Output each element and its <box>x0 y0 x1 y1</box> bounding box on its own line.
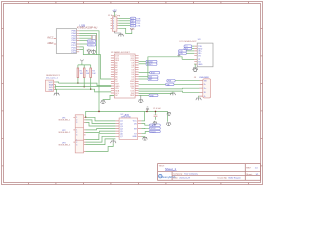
svg-text:J2 NANO-SOCKET: J2 NANO-SOCKET <box>111 51 131 54</box>
wire bus SCL row <box>55 85 111 87</box>
svg-text:DATA: DATA <box>150 124 156 127</box>
svg-text:MODE-SEL-1: MODE-SEL-1 <box>59 120 71 122</box>
U2 right pin names <box>132 121 137 138</box>
svg-text:5: 5 <box>113 28 114 30</box>
svg-text:UD-: UD- <box>179 53 183 55</box>
wire U3 pin3 <box>186 50 194 52</box>
svg-text:REV:: REV: <box>246 168 251 170</box>
wire U1 XTAL1 <box>79 35 91 37</box>
svg-text:V3: V3 <box>198 56 200 58</box>
svg-text:TXD0: TXD0 <box>88 45 94 47</box>
wire J2 right to SCK label <box>139 72 150 74</box>
wire U3 XI pin from long run <box>182 58 194 60</box>
IC U3 (right, serial converter) <box>180 39 214 67</box>
pin header J2 (big 36-pin socket) <box>111 51 135 98</box>
svg-text:SCK: SCK <box>151 73 156 75</box>
wire U1 XTAL2 <box>79 37 91 39</box>
JP pin numbers <box>76 117 77 146</box>
J2 left pin stubs <box>111 56 114 96</box>
wire J2 top right long run <box>148 57 182 78</box>
title block Sheet cell <box>246 173 259 176</box>
connector J3 (USB) <box>194 77 211 98</box>
net label TXD <box>130 22 140 25</box>
wire U3 pin2 <box>192 48 195 50</box>
wire J1 pin4 to label <box>118 25 130 27</box>
wire J4 gnd pin <box>55 90 56 93</box>
ground below J2 left <box>101 101 106 104</box>
connector J1 (top programming header) <box>108 10 121 31</box>
wire to mid ground <box>139 92 173 94</box>
wire J1 pin1 to label <box>118 17 130 19</box>
J2 right pin names <box>130 56 135 98</box>
ground at end of bus <box>166 123 171 126</box>
svg-text:Sheet_1: Sheet_1 <box>165 167 177 171</box>
wire J2 right to SS label <box>139 76 148 78</box>
net label UD- (U3) <box>179 52 187 55</box>
ground below J1 <box>115 31 124 36</box>
net label PWR <box>167 79 175 82</box>
svg-text:CTS: CTS <box>136 26 141 28</box>
wire U1 to net label TXD <box>79 43 87 45</box>
title block <box>158 164 261 181</box>
frame outer border <box>2 2 263 185</box>
wire JP3 pin1 to U2 <box>86 134 116 140</box>
svg-text:VIN: VIN <box>150 95 154 97</box>
wire J2 right pin3 to label <box>139 61 146 63</box>
svg-text:MODE-SEL-2: MODE-SEL-2 <box>59 132 71 134</box>
wire J2 last row to label <box>139 94 149 96</box>
net label UD+ (U3) <box>179 50 187 53</box>
title block REV <box>246 168 258 170</box>
wire JP1 pin1 to U2 <box>86 117 116 121</box>
svg-text:RXD0: RXD0 <box>88 41 94 43</box>
junction dot R1 <box>77 82 79 84</box>
J1 left pin stubs <box>111 18 113 28</box>
wire U2 DS to label <box>141 124 149 126</box>
wire U2 ST to label <box>141 132 149 134</box>
svg-text:4: 4 <box>113 25 114 27</box>
wire VCC to resistor top bus <box>78 63 91 65</box>
U3 left pin stubs <box>194 46 197 64</box>
wire U2 gnd to ground <box>141 135 145 138</box>
svg-text:Sheet:: Sheet: <box>246 173 252 176</box>
svg-text:Company:: Company: <box>173 174 183 176</box>
wire J2 GND row to USB area <box>139 83 166 85</box>
net label INT <box>148 78 158 81</box>
wire U1 bottom pins to ground glyphs <box>79 47 96 55</box>
J2 right pin stubs <box>135 56 139 96</box>
net label RXD <box>130 20 141 23</box>
junction dot C1 <box>155 111 157 113</box>
net label TXD <box>87 43 96 46</box>
resistor R2 10K <box>83 65 89 87</box>
no-connect glyph right of C1 <box>167 112 171 115</box>
U1 right pin stubs <box>77 31 80 52</box>
wire U1 to net label RXD <box>79 39 87 41</box>
net label RXD (U3) <box>184 47 192 50</box>
power flag on J1 wire <box>130 28 133 31</box>
ground below U3 <box>193 68 198 72</box>
net label RXD <box>87 40 96 43</box>
wire U2 SH to label <box>141 127 149 129</box>
wire U1 top pin long run to +5V bus <box>79 31 167 122</box>
title block Company row <box>173 173 199 176</box>
power flag on bus junction <box>146 107 149 112</box>
wire J2 right row to label2 <box>139 78 148 80</box>
capacitor C1 0.1uF <box>153 108 162 120</box>
title block Date row <box>173 177 241 180</box>
JP3 label <box>59 142 71 146</box>
resistor R3 10K <box>90 65 96 89</box>
svg-text:PWR: PWR <box>130 29 135 31</box>
jumper strip JP1/JP2/JP3 <box>75 115 83 153</box>
net label MOSI <box>146 60 157 63</box>
EasyEDA logo <box>159 175 177 179</box>
net label CTS <box>130 24 141 27</box>
svg-text:AREF: AREF <box>47 42 54 45</box>
net label VIN <box>149 94 158 97</box>
J1 right pin stubs <box>117 18 118 28</box>
net label SCK <box>150 71 160 74</box>
svg-text:3: 3 <box>76 122 77 124</box>
wire J2 row to USB pin3 <box>139 87 203 90</box>
JP1 label <box>59 117 71 121</box>
power flag VCC above resistors <box>80 60 83 63</box>
crystal Y1 <box>92 35 97 40</box>
U3 pin labels <box>198 46 203 66</box>
wire J2 row to USB pin4 <box>139 91 203 92</box>
U2 left pin names <box>120 121 123 138</box>
svg-text:PW: PW <box>168 81 171 83</box>
wire J1 pin2 to label <box>118 20 130 22</box>
U1 pin labels (right column, blue) <box>72 31 77 55</box>
U1 left pin net names AVCC / AREF <box>47 36 54 45</box>
ground below U1 (bug style) <box>91 49 96 53</box>
wire J3 gnd pin <box>198 96 201 98</box>
wire U3 gnd pin down <box>193 64 196 67</box>
svg-text:MODE-SEL-3: MODE-SEL-3 <box>59 145 71 147</box>
ground below J2 right <box>138 95 143 102</box>
J3 left pin stubs <box>199 81 203 96</box>
svg-text:AVCC: AVCC <box>47 36 54 39</box>
svg-text:3: 3 <box>76 144 77 146</box>
svg-text:SCLK: SCLK <box>150 128 156 130</box>
wire J2 right pin4 to label <box>139 63 146 65</box>
wire J1 pin3 to label <box>118 22 130 24</box>
svg-text:I2C_Conn_1: I2C_Conn_1 <box>46 77 59 79</box>
op-amp U1 (ATMEGA328P-AU MCU body) <box>56 23 97 53</box>
svg-text:RCLK: RCLK <box>150 131 156 133</box>
svg-text:IC2 CH340G-SOP: IC2 CH340G-SOP <box>180 41 198 43</box>
wire JP3 pin2 to U2 <box>86 136 116 142</box>
U2 right pin stubs <box>138 121 142 136</box>
svg-text:TITLE:: TITLE: <box>159 165 165 167</box>
U2 left pin stubs <box>115 121 119 136</box>
wire JP2 pin1 to U2 <box>86 129 116 130</box>
JP right pin stubs <box>84 117 86 151</box>
J3 pin labels <box>204 81 207 98</box>
wire bus SDA row <box>59 83 112 85</box>
JP2 label <box>59 130 71 134</box>
ground below U1 (triangle style) <box>87 49 91 54</box>
J4 right pin stubs <box>54 82 56 90</box>
svg-text:D-: D- <box>204 84 206 86</box>
net label SS <box>148 76 158 79</box>
J2 left pin names <box>115 56 120 98</box>
wire U3 pin4 <box>186 52 194 54</box>
wire VBUS to USB pin2 <box>174 83 203 85</box>
net label DTR <box>130 17 141 20</box>
svg-text:3: 3 <box>76 135 77 137</box>
power flag on long run <box>178 54 181 56</box>
svg-text:J1 Ser_Prog: J1 Ser_Prog <box>108 14 121 17</box>
J4 pin labels <box>48 82 53 92</box>
wire JP bottom to ground <box>86 143 114 151</box>
ground below J4 <box>54 92 60 96</box>
net label TXD (U3) <box>184 45 192 48</box>
frame tick marks <box>2 2 263 185</box>
wire bus third row <box>55 87 111 92</box>
svg-text:Belle Esquire: Belle Esquire <box>229 177 242 180</box>
svg-text:ATMEGA328P-AU: ATMEGA328P-AU <box>77 26 98 29</box>
svg-text:GND: GND <box>198 64 203 66</box>
connector J4 (left I2C header) <box>45 75 60 91</box>
ground mid (between J2 and USB) <box>170 93 176 95</box>
svg-text:C1 0.1uF: C1 0.1uF <box>153 108 162 110</box>
U1 left pin stubs <box>54 39 56 45</box>
wire JP3 pin3 up <box>86 139 116 145</box>
net label DATA <box>149 124 160 127</box>
wire J4 pin1 jog to bus <box>55 82 58 83</box>
wire JP1 pin3 to U2 <box>86 122 116 126</box>
svg-text:GND: GND <box>48 89 53 91</box>
resistor R1 10K <box>77 65 83 83</box>
svg-text:Date:: Date: <box>173 177 178 180</box>
svg-text:GND: GND <box>132 136 137 138</box>
svg-text:Q7: Q7 <box>120 136 123 138</box>
ground right of U2 <box>143 137 148 140</box>
ground below J3 <box>196 98 202 100</box>
wire JP2 pin2 to U2 <box>86 131 116 132</box>
wire U3 pin1 <box>192 45 195 47</box>
net label RCLK <box>149 130 160 133</box>
junction dot +5V bus <box>146 111 148 113</box>
wire PWR to USB pin1 <box>175 80 202 82</box>
wire U1 pin2 down to connector left pin <box>79 33 111 79</box>
IC U2 (bottom driver) <box>119 114 138 139</box>
wire JP1 pin2 to U2 <box>86 120 116 124</box>
ground below U2 <box>110 139 116 143</box>
svg-text:Your Company: Your Company <box>184 173 199 176</box>
ground below C1 <box>153 121 157 125</box>
junction dot R2 <box>83 86 85 88</box>
net label SRCLK <box>149 127 160 130</box>
junction dot R3 <box>90 88 92 90</box>
net label VBUS <box>166 83 174 86</box>
wire J1 pin5 to flag <box>118 28 132 33</box>
net label MISO <box>146 63 157 66</box>
svg-text:Drawn By:: Drawn By: <box>218 177 228 180</box>
svg-text:2022-01-29: 2022-01-29 <box>179 178 190 180</box>
JP left pin stubs <box>73 117 75 142</box>
wire J2 bottom-left pin to ground <box>103 95 114 100</box>
J1 pin numbers <box>113 18 114 30</box>
wire +5V bus to U2 vcc <box>141 111 144 121</box>
